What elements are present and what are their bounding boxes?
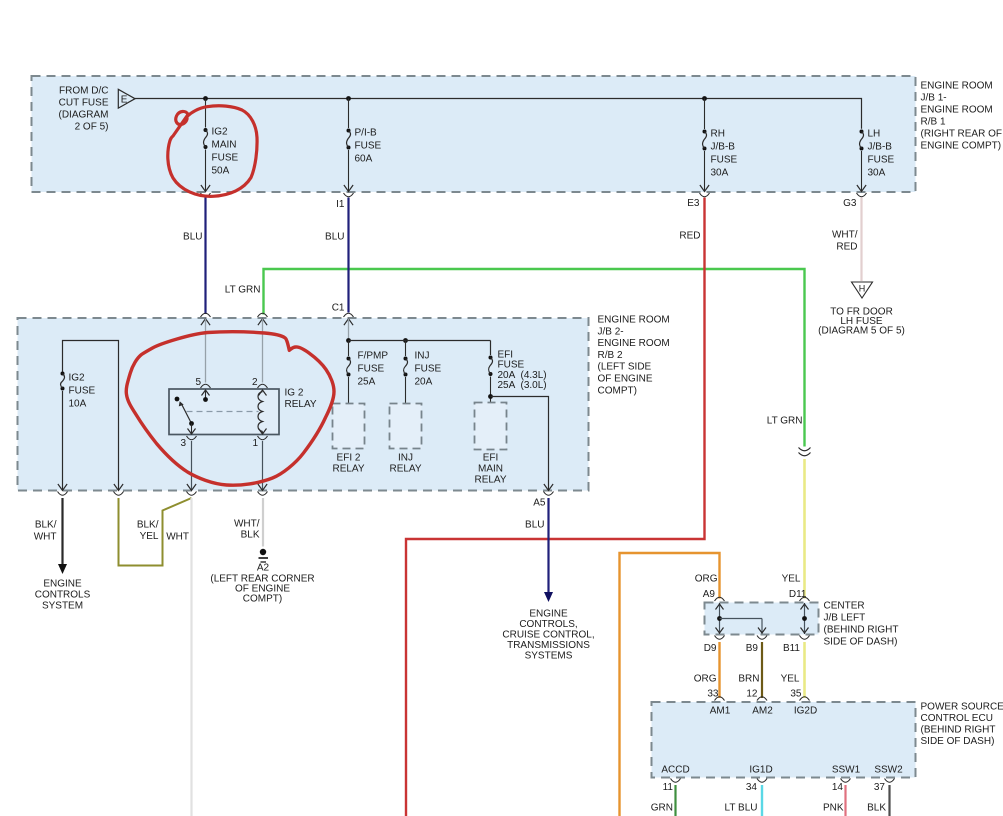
svg-text:RED: RED: [836, 242, 857, 253]
svg-text:A9: A9: [703, 589, 716, 600]
svg-text:IG2: IG2: [69, 373, 86, 384]
svg-text:BLK/: BLK/: [137, 520, 159, 531]
svg-text:(RIGHT REAR OF: (RIGHT REAR OF: [921, 129, 1002, 140]
svg-text:EFI 2: EFI 2: [337, 453, 361, 464]
svg-text:SYSTEMS: SYSTEMS: [525, 651, 573, 662]
svg-text:CONTROL ECU: CONTROL ECU: [921, 713, 993, 724]
svg-text:ENGINE: ENGINE: [43, 579, 82, 590]
svg-text:IG1D: IG1D: [749, 765, 772, 776]
svg-text:TRANSMISSIONS: TRANSMISSIONS: [507, 640, 590, 651]
svg-text:25A: 25A: [498, 380, 516, 391]
svg-text:INJ: INJ: [415, 351, 430, 362]
svg-text:BLU: BLU: [325, 232, 344, 243]
svg-text:IG2D: IG2D: [794, 706, 817, 717]
svg-text:POWER SOURCE: POWER SOURCE: [921, 702, 1003, 713]
svg-text:D11: D11: [789, 589, 807, 600]
svg-text:MAIN: MAIN: [478, 464, 503, 475]
svg-text:RELAY: RELAY: [474, 475, 506, 486]
svg-text:OF ENGINE: OF ENGINE: [598, 374, 653, 385]
svg-text:2 OF 5): 2 OF 5): [75, 122, 109, 133]
svg-text:WHT: WHT: [34, 532, 57, 543]
svg-text:37: 37: [874, 782, 886, 793]
svg-text:ENGINE COMPT): ENGINE COMPT): [921, 141, 1002, 152]
svg-text:(DIAGRAM: (DIAGRAM: [59, 110, 109, 121]
svg-text:C1: C1: [332, 303, 345, 314]
svg-text:WHT: WHT: [166, 532, 189, 543]
svg-text:A2: A2: [257, 563, 270, 574]
svg-text:J/B-B: J/B-B: [868, 142, 893, 153]
svg-text:10A: 10A: [69, 399, 87, 410]
svg-text:B11: B11: [783, 643, 800, 654]
svg-text:A5: A5: [533, 498, 546, 509]
svg-text:G3: G3: [843, 198, 857, 209]
svg-text:PNK: PNK: [823, 803, 844, 814]
svg-text:(BEHIND RIGHT: (BEHIND RIGHT: [824, 625, 899, 636]
svg-text:SSW2: SSW2: [874, 765, 903, 776]
svg-text:(BEHIND RIGHT: (BEHIND RIGHT: [921, 725, 996, 736]
svg-text:FUSE: FUSE: [868, 155, 895, 166]
svg-text:WHT/: WHT/: [832, 230, 858, 241]
svg-text:SSW1: SSW1: [832, 765, 861, 776]
svg-text:(DIAGRAM 5 OF 5): (DIAGRAM 5 OF 5): [818, 326, 905, 337]
svg-text:30A: 30A: [868, 168, 886, 179]
svg-text:20A: 20A: [415, 377, 433, 388]
svg-text:J/B 2-: J/B 2-: [598, 326, 624, 337]
svg-text:D9: D9: [704, 643, 717, 654]
svg-text:CONTROLS,: CONTROLS,: [519, 619, 577, 630]
svg-text:(LEFT SIDE: (LEFT SIDE: [598, 362, 652, 373]
svg-text:FUSE: FUSE: [711, 155, 738, 166]
svg-text:FUSE: FUSE: [415, 364, 442, 375]
svg-text:BRN: BRN: [738, 674, 759, 685]
svg-text:RELAY: RELAY: [285, 399, 317, 410]
svg-text:BLK: BLK: [241, 530, 260, 541]
svg-text:AM1: AM1: [710, 706, 731, 717]
svg-text:I1: I1: [336, 199, 345, 210]
svg-text:EFI: EFI: [483, 453, 499, 464]
svg-text:30A: 30A: [711, 168, 729, 179]
svg-text:FUSE: FUSE: [498, 360, 525, 371]
svg-text:CONTROLS: CONTROLS: [35, 590, 91, 601]
svg-text:3: 3: [180, 438, 186, 449]
svg-text:SIDE OF DASH): SIDE OF DASH): [921, 736, 995, 747]
svg-text:CENTER: CENTER: [824, 601, 865, 612]
svg-text:25A: 25A: [358, 377, 376, 388]
svg-text:BLU: BLU: [525, 520, 544, 531]
svg-text:ENGINE ROOM: ENGINE ROOM: [598, 315, 670, 326]
svg-text:ENGINE ROOM: ENGINE ROOM: [921, 81, 993, 92]
svg-text:FUSE: FUSE: [212, 153, 239, 164]
svg-text:SIDE OF DASH): SIDE OF DASH): [824, 637, 898, 648]
svg-text:INJ: INJ: [398, 453, 413, 464]
svg-text:14: 14: [832, 782, 844, 793]
svg-text:LT GRN: LT GRN: [225, 285, 261, 296]
svg-text:60A: 60A: [355, 154, 373, 165]
svg-text:ENGINE: ENGINE: [529, 609, 568, 620]
svg-text:H: H: [859, 284, 866, 294]
svg-text:MAIN: MAIN: [212, 140, 237, 151]
svg-text:LT GRN: LT GRN: [767, 416, 803, 427]
svg-text:(3.0L): (3.0L): [521, 380, 547, 391]
svg-text:YEL: YEL: [782, 574, 801, 585]
svg-text:RELAY: RELAY: [332, 464, 364, 475]
svg-text:IG2: IG2: [212, 127, 229, 138]
svg-text:J/B LEFT: J/B LEFT: [824, 613, 866, 624]
svg-text:LT BLU: LT BLU: [725, 803, 758, 814]
svg-text:ACCD: ACCD: [661, 765, 689, 776]
svg-text:YEL: YEL: [781, 674, 800, 685]
svg-text:COMPT): COMPT): [598, 385, 637, 396]
svg-text:J/B-B: J/B-B: [711, 142, 736, 153]
svg-text:BLK: BLK: [867, 803, 886, 814]
svg-text:F/PMP: F/PMP: [358, 351, 389, 362]
svg-text:RED: RED: [679, 231, 700, 242]
svg-text:5: 5: [195, 377, 201, 388]
svg-text:35: 35: [790, 689, 802, 700]
svg-text:ENGINE ROOM: ENGINE ROOM: [598, 338, 670, 349]
svg-text:12: 12: [746, 689, 758, 700]
svg-text:E: E: [121, 95, 128, 106]
svg-text:IG 2: IG 2: [285, 388, 304, 399]
svg-text:WHT/: WHT/: [234, 519, 260, 530]
svg-text:50A: 50A: [212, 166, 230, 177]
svg-text:FUSE: FUSE: [358, 364, 385, 375]
svg-text:11: 11: [663, 782, 674, 793]
svg-text:RELAY: RELAY: [389, 464, 421, 475]
svg-text:FUSE: FUSE: [355, 141, 382, 152]
svg-text:B9: B9: [746, 643, 759, 654]
svg-text:AM2: AM2: [752, 706, 773, 717]
svg-text:1: 1: [252, 438, 258, 449]
svg-text:R/B 2: R/B 2: [598, 350, 623, 361]
svg-text:CUT FUSE: CUT FUSE: [59, 98, 109, 109]
svg-text:BLU: BLU: [183, 232, 202, 243]
svg-text:LH: LH: [868, 129, 881, 140]
svg-text:RH: RH: [711, 129, 725, 140]
svg-text:J/B 1-: J/B 1-: [921, 93, 947, 104]
svg-text:P/I-B: P/I-B: [355, 128, 378, 139]
svg-text:ENGINE ROOM: ENGINE ROOM: [921, 105, 993, 116]
svg-text:FROM D/C: FROM D/C: [59, 86, 108, 97]
svg-text:34: 34: [746, 782, 758, 793]
svg-text:GRN: GRN: [651, 803, 673, 814]
svg-text:2: 2: [252, 377, 258, 388]
svg-text:COMPT): COMPT): [243, 594, 282, 605]
svg-text:R/B 1: R/B 1: [921, 117, 946, 128]
svg-text:E3: E3: [687, 198, 700, 209]
svg-text:ORG: ORG: [694, 674, 717, 685]
svg-text:YEL: YEL: [140, 531, 159, 542]
svg-text:FUSE: FUSE: [69, 386, 96, 397]
svg-text:CRUISE CONTROL,: CRUISE CONTROL,: [502, 630, 594, 641]
svg-text:SYSTEM: SYSTEM: [42, 601, 83, 612]
svg-text:BLK/: BLK/: [35, 520, 57, 531]
svg-text:ORG: ORG: [695, 574, 718, 585]
